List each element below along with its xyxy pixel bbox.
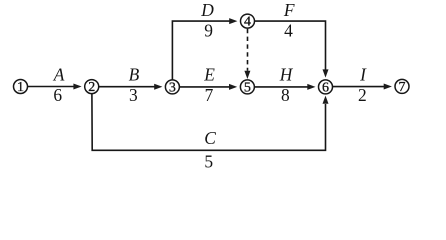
node 6 circle (319, 80, 333, 94)
wire E (3 to 5) (180, 86, 231, 88)
dashed dummy wire (4 down to 5) (247, 29, 249, 71)
node 7 circle (395, 79, 409, 93)
wire I (6 to 7) (333, 86, 385, 88)
svg-text:8: 8 (281, 85, 290, 105)
wire B (2 to 3) (99, 86, 155, 88)
arrowhead B into node 3 (154, 84, 162, 90)
arrowhead F into node 6 top (323, 69, 329, 77)
node 3 circle (165, 80, 179, 94)
svg-text:4: 4 (244, 15, 251, 30)
arrowhead D into node 4 (229, 18, 237, 24)
svg-text:2: 2 (358, 85, 367, 105)
svg-text:7: 7 (399, 80, 406, 95)
node 1 circle (14, 80, 28, 94)
wire D (3 up and right to 4) (172, 21, 230, 80)
svg-text:H: H (279, 64, 294, 84)
arrowhead H into node 6 (307, 84, 315, 90)
svg-text:2: 2 (88, 80, 95, 95)
svg-text:B: B (129, 64, 140, 84)
svg-text:C: C (204, 128, 216, 148)
arrowhead A into node 2 (73, 84, 81, 90)
wire C (2 down, right, up to 6) (92, 94, 326, 151)
svg-text:I: I (359, 64, 367, 84)
svg-text:D: D (200, 0, 214, 20)
wire F (4 right and down to 6) (255, 21, 326, 70)
svg-text:1: 1 (17, 80, 24, 95)
svg-text:A: A (53, 64, 65, 84)
arrowhead dummy into node 5 top (244, 71, 250, 79)
node 5 circle (240, 80, 254, 94)
node 4 circle (241, 14, 255, 28)
svg-text:3: 3 (129, 85, 138, 105)
arrowhead I into node 7 (384, 84, 392, 90)
wire A (1 to 2) (28, 86, 75, 88)
svg-text:9: 9 (204, 21, 213, 41)
svg-text:5: 5 (244, 81, 251, 96)
arrowhead E into node 5 (229, 84, 237, 90)
node 2 circle (85, 80, 99, 94)
svg-text:6: 6 (53, 85, 62, 105)
svg-text:F: F (283, 0, 295, 20)
svg-text:6: 6 (322, 81, 329, 96)
svg-text:E: E (203, 64, 215, 84)
svg-text:3: 3 (169, 81, 176, 96)
arrowhead C into node 6 bottom (323, 96, 329, 104)
svg-text:4: 4 (284, 21, 293, 41)
svg-text:5: 5 (204, 152, 213, 172)
wire H (5 to 6) (255, 86, 309, 88)
svg-text:7: 7 (205, 85, 214, 105)
